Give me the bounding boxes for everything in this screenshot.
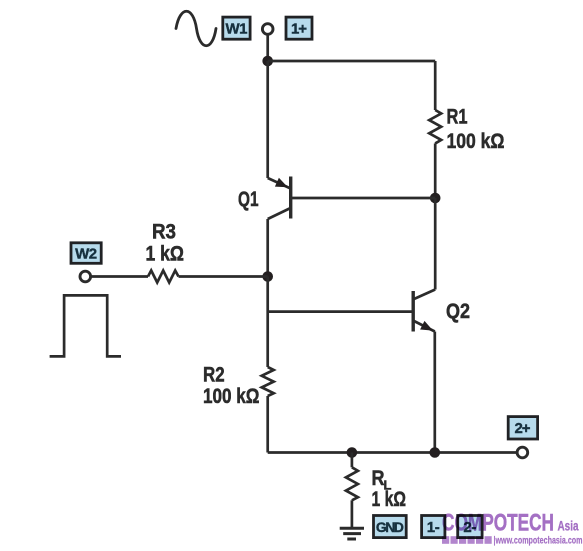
label W2: [71, 243, 101, 263]
wire node to Q2 base: [268, 310, 412, 313]
svg-text:1+: 1+: [291, 20, 307, 37]
label GND: [374, 516, 407, 538]
svg-text:1 kΩ: 1 kΩ: [372, 487, 407, 511]
wire R2 to bottom rail: [266, 396, 269, 453]
svg-text:W1: W1: [226, 20, 248, 37]
resistor RL: [346, 467, 358, 500]
wire node B down to R2: [266, 277, 269, 368]
wire RL node down: [351, 453, 354, 468]
wire RL to ground: [351, 500, 354, 528]
wire Q1 base to node: [292, 197, 435, 200]
terminal 2+: [517, 447, 528, 458]
svg-text:GND: GND: [376, 519, 404, 535]
wire Q2 emitter down: [433, 332, 436, 453]
label RL: [372, 466, 392, 493]
svg-text:R3: R3: [152, 220, 176, 244]
resistor R3: [148, 271, 179, 283]
wire top node to Q1 emitter: [266, 61, 269, 178]
wire R1 to base node: [434, 143, 437, 198]
svg-text:R2: R2: [203, 362, 225, 386]
svg-text:COMPOTECH: COMPOTECH: [442, 510, 554, 537]
svg-text:Q2: Q2: [446, 299, 470, 323]
svg-text:1-: 1-: [427, 519, 440, 536]
wire top rail: [268, 60, 436, 63]
wire terminal to top node: [266, 35, 269, 61]
node Q2 emitter junction: [430, 447, 441, 458]
terminal W1/1+: [262, 24, 273, 35]
svg-text:W2: W2: [75, 245, 97, 262]
ground: [340, 528, 364, 539]
wire W2 to R3: [91, 275, 148, 278]
sine wave source symbol: [176, 11, 216, 46]
svg-text:1 kΩ: 1 kΩ: [146, 242, 185, 266]
terminal W2: [80, 271, 91, 282]
svg-text:R1: R1: [447, 105, 468, 129]
resistor R2: [262, 367, 274, 396]
svg-text:Q1: Q1: [238, 187, 259, 211]
pulse waveform symbol: [50, 295, 121, 356]
watermark logo COMPOTECH Asia: [442, 510, 583, 547]
transistor Q2: [413, 290, 435, 332]
label 2-: [458, 516, 482, 538]
label 1+: [286, 17, 312, 39]
resistor R1: [429, 110, 441, 143]
node RL junction: [347, 447, 358, 458]
svg-text:2+: 2+: [515, 420, 531, 437]
svg-text:100 kΩ: 100 kΩ: [203, 384, 260, 408]
wire Q1 collector down to node B: [266, 219, 269, 277]
wire top rail to R1: [434, 61, 437, 110]
svg-text:|www.compotechasia.com: |www.compotechasia.com: [494, 536, 583, 547]
label 2+: [508, 417, 537, 439]
svg-text:Asia: Asia: [558, 519, 579, 534]
label W1: [223, 17, 250, 39]
wire R3 to node B: [179, 275, 268, 278]
label 1-: [422, 516, 445, 538]
transistor Q1: [268, 177, 291, 220]
wire bottom rail: [268, 451, 517, 454]
wire node down to Q2 collector: [434, 198, 437, 290]
svg-text:100 kΩ: 100 kΩ: [447, 129, 505, 153]
node B junction: [262, 271, 273, 282]
node top junction: [262, 56, 273, 67]
node base Q1 junction: [430, 193, 441, 204]
